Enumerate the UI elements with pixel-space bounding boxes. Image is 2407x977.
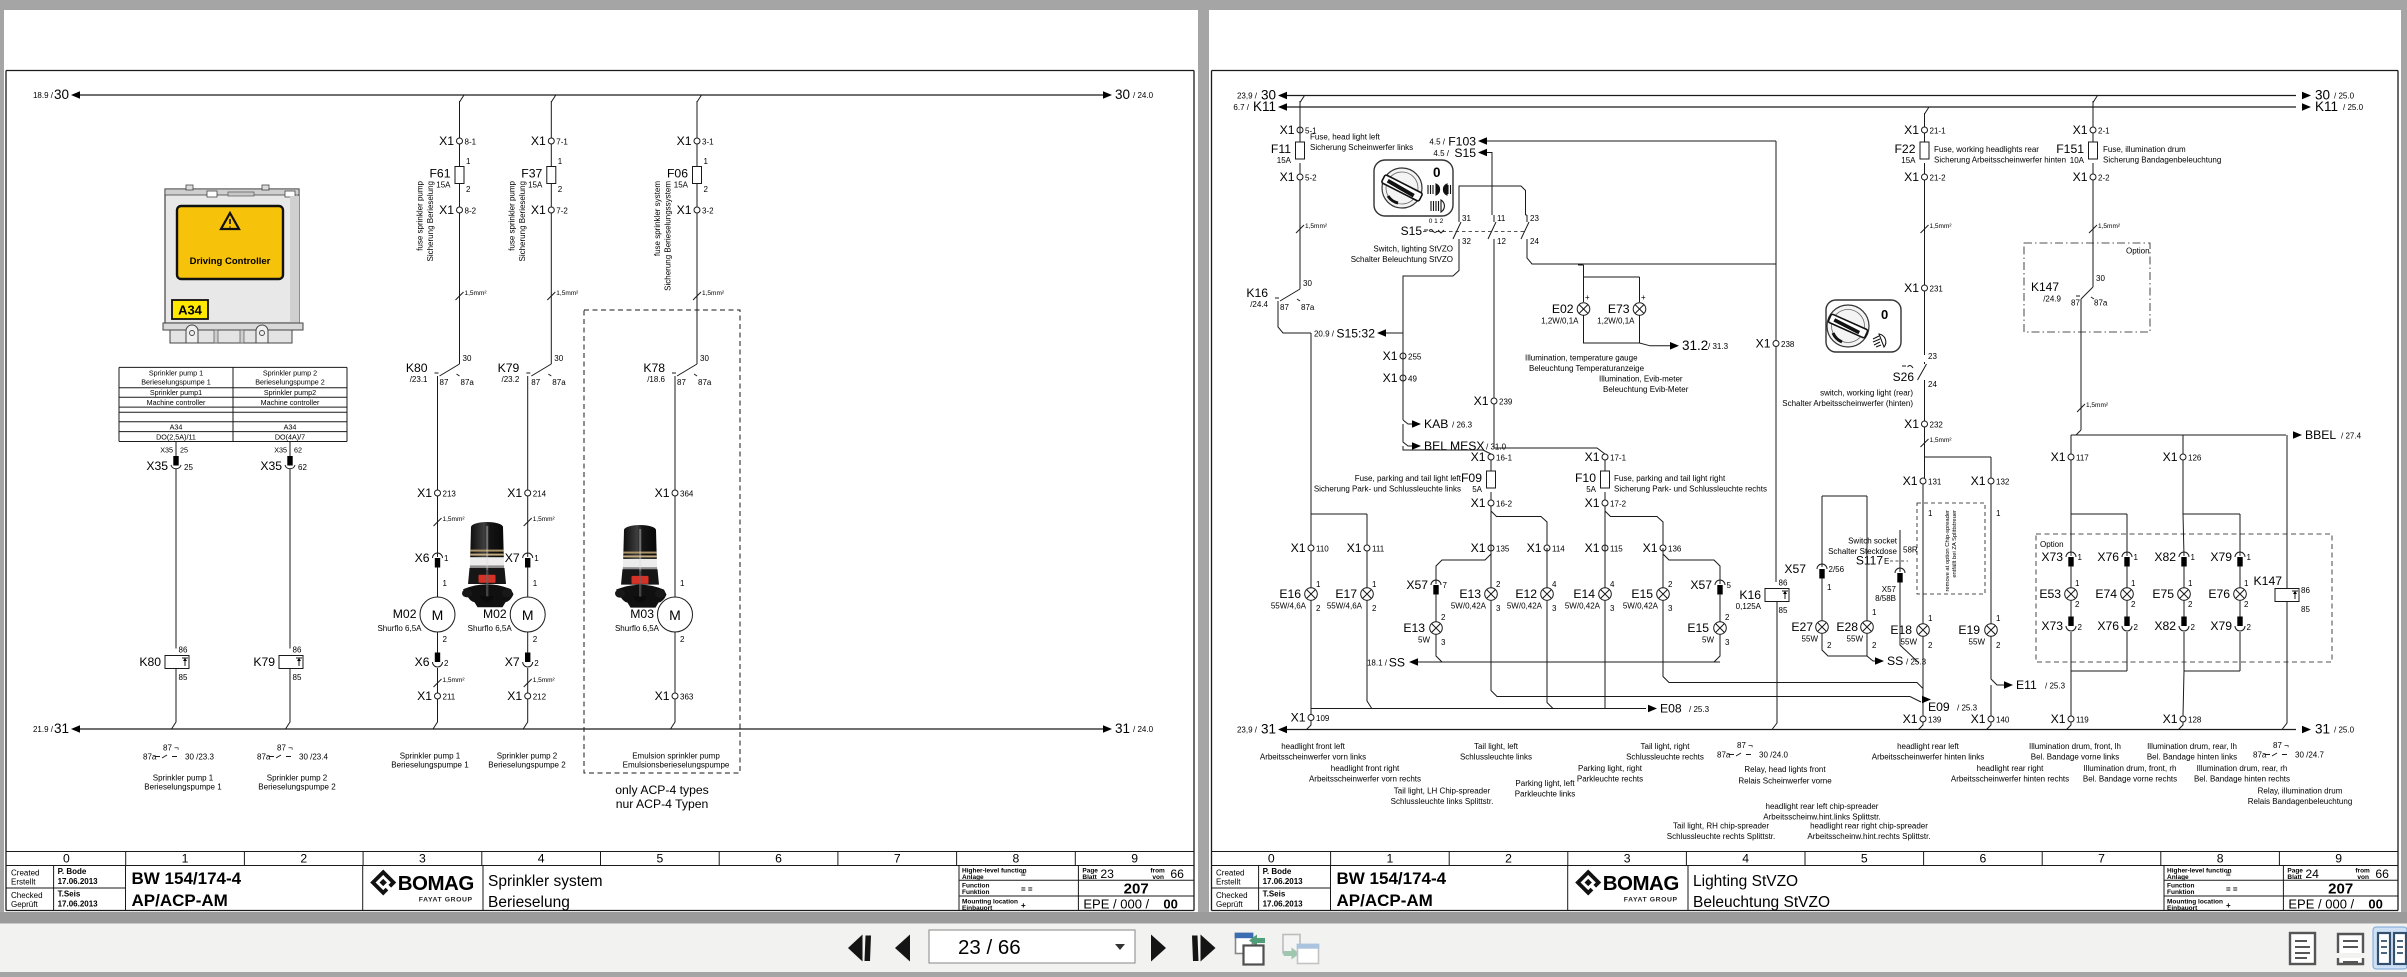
terminal X1 5-1 <box>1297 127 1303 133</box>
svg-text:X1: X1 <box>1383 371 1398 385</box>
svg-text:Geprüft: Geprüft <box>11 900 38 909</box>
svg-text:Option: Option <box>2040 540 2064 549</box>
svg-text:X57: X57 <box>1406 578 1428 592</box>
svg-text:55W: 55W <box>1802 635 1819 644</box>
off-page arrow SS right <box>1875 657 1884 665</box>
svg-text:2: 2 <box>2188 600 2193 609</box>
svg-text:K147: K147 <box>2254 574 2283 588</box>
svg-text:Illumination drum, rear, lh: Illumination drum, rear, lh <box>2147 742 2237 751</box>
svg-text:Tail light, left: Tail light, left <box>1474 742 1519 751</box>
svg-text:1: 1 <box>444 554 449 563</box>
wire K147 coil <box>2282 435 2287 730</box>
wire fuse to relay contact <box>459 213 461 364</box>
wire <box>1924 180 1926 285</box>
svg-text:E18: E18 <box>1890 623 1912 637</box>
svg-text:M: M <box>669 607 681 623</box>
wire contact to X1 364 <box>674 376 676 490</box>
svg-text:M: M <box>522 607 534 623</box>
svg-text:T.Seis: T.Seis <box>58 890 81 899</box>
svg-text:Fuse, head light left: Fuse, head light left <box>1310 133 1381 142</box>
svg-text:Relay, head lights front: Relay, head lights front <box>1744 765 1826 774</box>
svg-text:X1: X1 <box>2163 450 2178 464</box>
connector X73 pin 1 <box>2041 550 2082 567</box>
wire <box>2067 722 2184 730</box>
relay coil K79 <box>253 646 303 683</box>
svg-text:Parkleuchte rechts: Parkleuchte rechts <box>1577 775 1643 784</box>
motor M03 <box>615 597 693 633</box>
svg-text:24: 24 <box>1530 237 1539 246</box>
wire <box>1307 721 1312 730</box>
terminal X1 140 <box>1988 716 1994 722</box>
svg-text:212: 212 <box>533 693 547 702</box>
svg-text:Tail light, right: Tail light, right <box>1641 742 1691 751</box>
svg-text:M: M <box>432 607 444 623</box>
wire <box>674 632 676 693</box>
switch icon S15 <box>1374 160 1453 216</box>
svg-text:31: 31 <box>54 721 69 736</box>
svg-text:30: 30 <box>1303 279 1312 288</box>
wire <box>1923 484 1991 624</box>
wire gauge mark 1,5mm2 <box>1296 225 1304 233</box>
wire K80 coil to bus 31 <box>172 669 177 730</box>
svg-text:Sprinkler pump2: Sprinkler pump2 <box>264 388 316 397</box>
relay contact K147 <box>2081 287 2093 299</box>
svg-text:6.7 /: 6.7 / <box>1233 103 1249 112</box>
off-page arrow E11 <box>2004 681 2013 689</box>
svg-text:1: 1 <box>1372 580 1377 589</box>
continuous scroll view icon <box>2338 934 2363 964</box>
svg-text:18.9 /: 18.9 / <box>33 91 54 100</box>
svg-text:Shurflo 6,5A: Shurflo 6,5A <box>615 624 660 633</box>
terminal X1 136 <box>1660 545 1666 551</box>
connector pin <box>1895 568 1905 583</box>
switch contact S15 11/12 <box>1488 214 1506 246</box>
wire <box>2070 601 2072 618</box>
terminal X1 5-2 <box>1297 174 1303 180</box>
wire to bus 31 <box>433 699 438 729</box>
wire <box>1987 722 1992 730</box>
svg-text:E75: E75 <box>2152 587 2174 601</box>
right page: Lighting StVZO schematic <box>1209 10 2401 912</box>
wire <box>459 144 461 167</box>
svg-text:Sicherung Park- und Schlussleu: Sicherung Park- und Schlussleuchte recht… <box>1614 485 1767 494</box>
svg-text:126: 126 <box>2188 454 2202 463</box>
terminal X1 17-2 <box>1602 500 1608 506</box>
motor M02 <box>468 597 546 633</box>
wire <box>550 184 552 208</box>
svg-text:Illumination drum, rear, rh: Illumination drum, rear, rh <box>2197 764 2288 773</box>
svg-text:207: 207 <box>1124 881 1149 898</box>
terminal X1 135 <box>1488 545 1494 551</box>
svg-text:/ 24.0: / 24.0 <box>1133 91 1154 100</box>
svg-text:Schlussleuchte links: Schlussleuchte links <box>1460 753 1532 762</box>
svg-text:2: 2 <box>1928 641 1933 650</box>
wire <box>1899 530 1901 572</box>
wire <box>1299 133 1301 142</box>
terminal X1 49 <box>1400 375 1406 381</box>
terminal X1 16-2 <box>1488 500 1494 506</box>
lamp E13 <box>1403 621 1442 645</box>
svg-text:86: 86 <box>293 646 302 655</box>
svg-text:5A: 5A <box>1586 485 1596 494</box>
svg-text:Option: Option <box>2126 247 2150 256</box>
svg-text:X1: X1 <box>417 486 432 500</box>
svg-text:KAB: KAB <box>1424 417 1448 431</box>
svg-text:55W/4,6A: 55W/4,6A <box>1271 602 1307 611</box>
wire <box>1924 291 1926 355</box>
svg-text:F37: F37 <box>521 167 542 181</box>
svg-text:4: 4 <box>538 852 545 866</box>
svg-text:X1: X1 <box>1904 123 1919 137</box>
terminal X1 364 <box>672 490 678 496</box>
terminal X1 214 <box>525 490 531 496</box>
svg-text:115: 115 <box>1610 545 1623 554</box>
svg-text:X1: X1 <box>1585 541 1600 555</box>
lamp E13 <box>1451 587 1497 611</box>
svg-text:Relais Scheinwerfer vorne: Relais Scheinwerfer vorne <box>1738 777 1832 786</box>
wire rail E08 <box>1311 708 1646 710</box>
off-page arrow SS left <box>1409 658 1418 666</box>
wire K16 coil to bus31 <box>1772 602 1777 730</box>
svg-text:8/58B: 8/58B <box>1875 594 1896 603</box>
svg-text:A34: A34 <box>178 303 203 318</box>
wire SS rail <box>1418 635 1720 663</box>
bus 30 top <box>1282 95 2296 97</box>
connector X82 pin 2 <box>2154 617 2195 634</box>
svg-text:85: 85 <box>1779 606 1788 615</box>
relay contact K78 <box>643 354 712 387</box>
svg-text:P. Bode: P. Bode <box>1263 867 1292 876</box>
svg-text:Illumination drum, front, rh: Illumination drum, front, rh <box>2084 764 2177 773</box>
svg-text:X1: X1 <box>2051 712 2066 726</box>
svg-text:S15: S15 <box>1454 146 1476 160</box>
svg-text:Berieselungspumpe 2: Berieselungspumpe 2 <box>255 378 325 387</box>
svg-text:Created: Created <box>11 869 39 878</box>
lamp E16 <box>1271 587 1317 611</box>
svg-text:K79: K79 <box>253 655 275 669</box>
fuse F37 <box>547 167 556 184</box>
svg-text:87: 87 <box>440 378 449 387</box>
svg-text:2: 2 <box>1996 641 2001 650</box>
single page view icon <box>2290 933 2315 964</box>
svg-text:16-2: 16-2 <box>1496 500 1513 509</box>
svg-text:2: 2 <box>1316 604 1321 613</box>
wire E02 E73 return <box>1584 316 1671 346</box>
wire <box>527 668 529 693</box>
svg-text:86: 86 <box>179 646 188 655</box>
svg-text:X1: X1 <box>439 203 454 217</box>
svg-text:0,125A: 0,125A <box>1736 602 1762 611</box>
svg-text:Bel. Bandage vorne links: Bel. Bandage vorne links <box>2031 753 2120 762</box>
svg-text:Schlussleuchte rechts Splittst: Schlussleuchte rechts Splittstr. <box>1667 832 1776 841</box>
svg-text:4: 4 <box>1552 580 1557 589</box>
svg-text:X1: X1 <box>2073 170 2088 184</box>
connector X73 pin 2 <box>2041 617 2082 634</box>
svg-text:2: 2 <box>466 185 471 194</box>
svg-text:Created: Created <box>1216 869 1244 878</box>
BOMAG logo <box>1575 869 1679 903</box>
svg-text:Parking light, left: Parking light, left <box>1515 779 1575 788</box>
fuse F10 <box>1601 471 1610 488</box>
terminal X1 211 <box>435 693 441 699</box>
lamp E15 <box>1623 587 1669 611</box>
svg-text:86: 86 <box>1779 579 1788 588</box>
svg-text:X35: X35 <box>146 459 168 473</box>
wire X35.62 to K79 coil <box>289 469 291 649</box>
svg-text:Berieselungspumpe 1: Berieselungspumpe 1 <box>391 761 469 770</box>
svg-text:1: 1 <box>1872 608 1877 617</box>
svg-text:87a: 87a <box>2094 299 2108 308</box>
wire <box>527 632 529 653</box>
bus K11 <box>1282 106 2296 108</box>
svg-text:X57: X57 <box>1784 562 1806 576</box>
svg-text:30 /23.4: 30 /23.4 <box>299 753 328 762</box>
svg-text:switch, working light (rear): switch, working light (rear) <box>1820 389 1913 398</box>
svg-text:1: 1 <box>2075 579 2080 588</box>
svg-text:F06: F06 <box>667 167 688 181</box>
option dash-dot box K147 contact <box>2024 243 2150 332</box>
connector X57 pin 2/56 <box>1784 562 1844 579</box>
svg-text:5-2: 5-2 <box>1305 174 1317 183</box>
svg-text:E15: E15 <box>1687 621 1709 635</box>
wire to K16 coil <box>1775 347 1777 582</box>
svg-text:2: 2 <box>2075 600 2080 609</box>
page number box <box>929 930 1135 963</box>
wire <box>437 496 439 557</box>
svg-text:87: 87 <box>1280 303 1289 312</box>
svg-text:headlight rear left: headlight rear left <box>1897 742 1960 751</box>
svg-text:7: 7 <box>894 852 901 866</box>
connector X82 pin 1 <box>2154 550 2195 567</box>
svg-text:30: 30 <box>1115 87 1130 102</box>
svg-text:87a: 87a <box>143 753 157 762</box>
svg-text:23 / 66: 23 / 66 <box>958 936 1021 959</box>
svg-text:X1: X1 <box>1527 541 1542 555</box>
svg-text:S15: S15 <box>1401 224 1423 238</box>
terminal X1 110 <box>1308 545 1314 551</box>
svg-text:231: 231 <box>1930 285 1944 294</box>
svg-text:T.Seis: T.Seis <box>1263 890 1286 899</box>
svg-text:Checked: Checked <box>1216 891 1248 900</box>
svg-text:K147: K147 <box>2031 280 2059 294</box>
connector X76 pin 1 <box>2097 550 2138 567</box>
svg-text:87a: 87a <box>1301 303 1315 312</box>
wire gauge mark 1,5mm2 <box>434 679 442 687</box>
previous view button <box>1235 933 1265 965</box>
switch contact S15 31/32 <box>1453 214 1471 246</box>
svg-text:Sicherung Berieselungssystem: Sicherung Berieselungssystem <box>664 181 673 291</box>
svg-text:15A: 15A <box>528 181 543 190</box>
svg-text:23: 23 <box>1928 352 1937 361</box>
terminal X1 8-2 <box>457 207 463 213</box>
svg-text:1: 1 <box>2191 553 2196 562</box>
svg-text:114: 114 <box>1552 545 1565 554</box>
svg-text:X1: X1 <box>1471 541 1486 555</box>
svg-text:1: 1 <box>2244 579 2249 588</box>
terminal X1 17-1 <box>1602 454 1608 460</box>
svg-text:9: 9 <box>2335 852 2342 866</box>
svg-text:Blatt: Blatt <box>2287 874 2302 881</box>
svg-text:25: 25 <box>180 446 188 455</box>
wire <box>1435 594 1437 622</box>
svg-text:3: 3 <box>1441 638 1446 647</box>
off-page arrow 31.2 <box>1670 342 1679 350</box>
svg-text:32: 32 <box>1462 237 1471 246</box>
title block <box>1211 852 2398 866</box>
svg-text:2: 2 <box>558 185 563 194</box>
svg-text:1: 1 <box>443 579 448 588</box>
svg-text:FAYAT GROUP: FAYAT GROUP <box>419 897 473 904</box>
svg-text:Fuse, illumination drum: Fuse, illumination drum <box>2103 145 2186 154</box>
svg-text:/ 31.3: / 31.3 <box>1708 342 1729 351</box>
svg-text:1: 1 <box>1996 614 2001 623</box>
svg-text:0 1 2: 0 1 2 <box>1429 218 1444 225</box>
svg-text:24: 24 <box>2305 867 2319 881</box>
svg-text:E27: E27 <box>1791 620 1813 634</box>
svg-text:1,5mm²: 1,5mm² <box>533 677 556 684</box>
switch contact S26 <box>1918 362 1927 383</box>
first page button <box>848 935 871 962</box>
svg-text:von: von <box>1152 874 1164 881</box>
svg-text:1,5mm²: 1,5mm² <box>2086 402 2109 409</box>
svg-text:/24.9: /24.9 <box>2043 295 2061 304</box>
svg-text:1: 1 <box>466 157 471 166</box>
wire K147.87 distribution <box>2071 299 2286 454</box>
svg-text:23: 23 <box>1100 867 1114 881</box>
svg-text:E13: E13 <box>1459 587 1481 601</box>
svg-text:21.9 /: 21.9 / <box>33 725 54 734</box>
svg-text:Arbeitsscheinwerfer hinten rec: Arbeitsscheinwerfer hinten rechts <box>1951 775 2069 784</box>
svg-text:Arbeitsscheinwerfer vorn links: Arbeitsscheinwerfer vorn links <box>1260 753 1366 762</box>
wire gauge mark 1,5mm2 <box>456 292 464 300</box>
svg-text:Schalter Beleuchtung StVZO: Schalter Beleuchtung StVZO <box>1351 255 1453 264</box>
svg-text:21-1: 21-1 <box>1930 127 1947 136</box>
wire <box>1604 460 1606 471</box>
svg-text:Bel. Bandage hinten links: Bel. Bandage hinten links <box>2147 753 2237 762</box>
svg-text:Blatt: Blatt <box>1082 874 1097 881</box>
svg-text:Schlussleuchte links Splittstr: Schlussleuchte links Splittstr. <box>1391 797 1494 806</box>
svg-text:18.1 /: 18.1 / <box>1367 659 1388 668</box>
svg-text:E76: E76 <box>2208 587 2230 601</box>
wire gauge mark 1,5mm2 <box>1921 439 1929 447</box>
svg-text:364: 364 <box>680 490 694 499</box>
svg-text:K11: K11 <box>1253 99 1276 114</box>
svg-text:+: + <box>1021 901 1026 910</box>
svg-text:X57: X57 <box>1882 585 1897 594</box>
connector X57 pin 5 <box>1690 578 1731 595</box>
svg-text:62: 62 <box>294 446 302 455</box>
svg-text:X1: X1 <box>1585 450 1600 464</box>
svg-text:11: 11 <box>1497 214 1506 223</box>
svg-text:X1: X1 <box>507 486 522 500</box>
wire <box>2092 163 2094 174</box>
svg-text:55W/4,6A: 55W/4,6A <box>1327 602 1363 611</box>
wire gauge mark 1,5mm2 <box>547 292 555 300</box>
connector X7 pin 1 <box>505 551 539 568</box>
terminal X1 2-1 <box>2090 127 2096 133</box>
svg-text:1,2W/0,1A: 1,2W/0,1A <box>1597 317 1635 326</box>
wire <box>2126 601 2128 618</box>
svg-text:132: 132 <box>1996 478 2010 487</box>
wire gauge mark 1,5mm2 <box>1921 225 1929 233</box>
svg-text:1: 1 <box>1316 580 1321 589</box>
svg-text:fuse sprinkler system: fuse sprinkler system <box>653 181 662 256</box>
svg-text:headlight rear right: headlight rear right <box>1977 764 2044 773</box>
svg-text:Bel. Bandage vorne rechts: Bel. Bandage vorne rechts <box>2083 775 2177 784</box>
lamp E12 <box>1507 587 1553 611</box>
svg-text:F09: F09 <box>1461 471 1482 485</box>
svg-text:X57: X57 <box>1690 578 1712 592</box>
wire to X1 17-1 <box>1494 404 1605 454</box>
svg-text:E08: E08 <box>1660 702 1682 716</box>
svg-text:Funktion: Funktion <box>962 889 989 896</box>
svg-text:EPE / 000 /: EPE / 000 / <box>1083 897 1149 912</box>
terminal X1 131 <box>1920 478 1926 484</box>
wire <box>527 567 529 597</box>
svg-text:Beleuchtung Evib-Meter: Beleuchtung Evib-Meter <box>1603 385 1689 394</box>
wire to E18 E19 <box>1925 427 1992 478</box>
svg-text:Sprinkler pump 1: Sprinkler pump 1 <box>153 774 214 783</box>
svg-text:Sprinkler pump 1: Sprinkler pump 1 <box>149 368 203 377</box>
svg-text:3: 3 <box>1496 604 1501 613</box>
svg-text:/ 25.0: / 25.0 <box>2334 726 2355 735</box>
svg-text:136: 136 <box>1668 545 1682 554</box>
svg-text:X76: X76 <box>2097 619 2119 633</box>
svg-text:00: 00 <box>2368 897 2382 912</box>
svg-text:E28: E28 <box>1836 620 1858 634</box>
svg-text:X1: X1 <box>1756 337 1771 351</box>
wire <box>1990 685 1992 716</box>
svg-text:X1: X1 <box>1280 123 1295 137</box>
svg-text:Checked: Checked <box>11 891 43 900</box>
svg-text:131: 131 <box>1928 478 1942 487</box>
svg-text:1: 1 <box>2247 553 2252 562</box>
svg-text:1,2W/0,1A: 1,2W/0,1A <box>1541 317 1579 326</box>
svg-text:X1: X1 <box>1291 711 1306 725</box>
svg-text:X1: X1 <box>531 134 546 148</box>
wire <box>674 496 676 597</box>
terminal X1 239 <box>1491 398 1497 404</box>
connector X6 pin 1 <box>415 551 449 568</box>
svg-text:Sprinkler system: Sprinkler system <box>488 873 603 890</box>
wire E19 return <box>1991 637 2004 686</box>
svg-text:X7: X7 <box>505 551 520 565</box>
wire contact to X1 213 <box>437 376 439 490</box>
controller unit A34 drawing <box>163 185 303 343</box>
relay coil K147 <box>2254 574 2311 614</box>
svg-text:1: 1 <box>558 157 563 166</box>
svg-text:4.5 /: 4.5 / <box>1429 138 1445 147</box>
svg-text:Illumination drum, front, lh: Illumination drum, front, lh <box>2029 742 2121 751</box>
svg-text:58R: 58R <box>1903 546 1918 555</box>
svg-text:8: 8 <box>1013 852 1020 866</box>
svg-text:E19: E19 <box>1958 623 1980 637</box>
wire <box>1546 548 1548 588</box>
svg-text:X1: X1 <box>1903 712 1918 726</box>
svg-text:2: 2 <box>1827 641 1832 650</box>
lamp E73 <box>1597 302 1646 326</box>
svg-text:2-1: 2-1 <box>2098 127 2110 136</box>
svg-text:0: 0 <box>1433 165 1441 180</box>
svg-text:nur ACP-4 Typen: nur ACP-4 Typen <box>616 797 709 811</box>
svg-text:E17: E17 <box>1335 587 1357 601</box>
svg-text:Illumination, temperature gaug: Illumination, temperature gauge <box>1525 354 1638 363</box>
svg-text:2: 2 <box>2134 623 2139 632</box>
svg-text:DO(2,5A)/11: DO(2,5A)/11 <box>156 432 196 441</box>
left page: Sprinkler system schematic <box>4 10 1198 912</box>
svg-text:BW 154/174-4: BW 154/174-4 <box>1337 869 1447 888</box>
svg-text:17.06.2013: 17.06.2013 <box>1263 900 1304 909</box>
